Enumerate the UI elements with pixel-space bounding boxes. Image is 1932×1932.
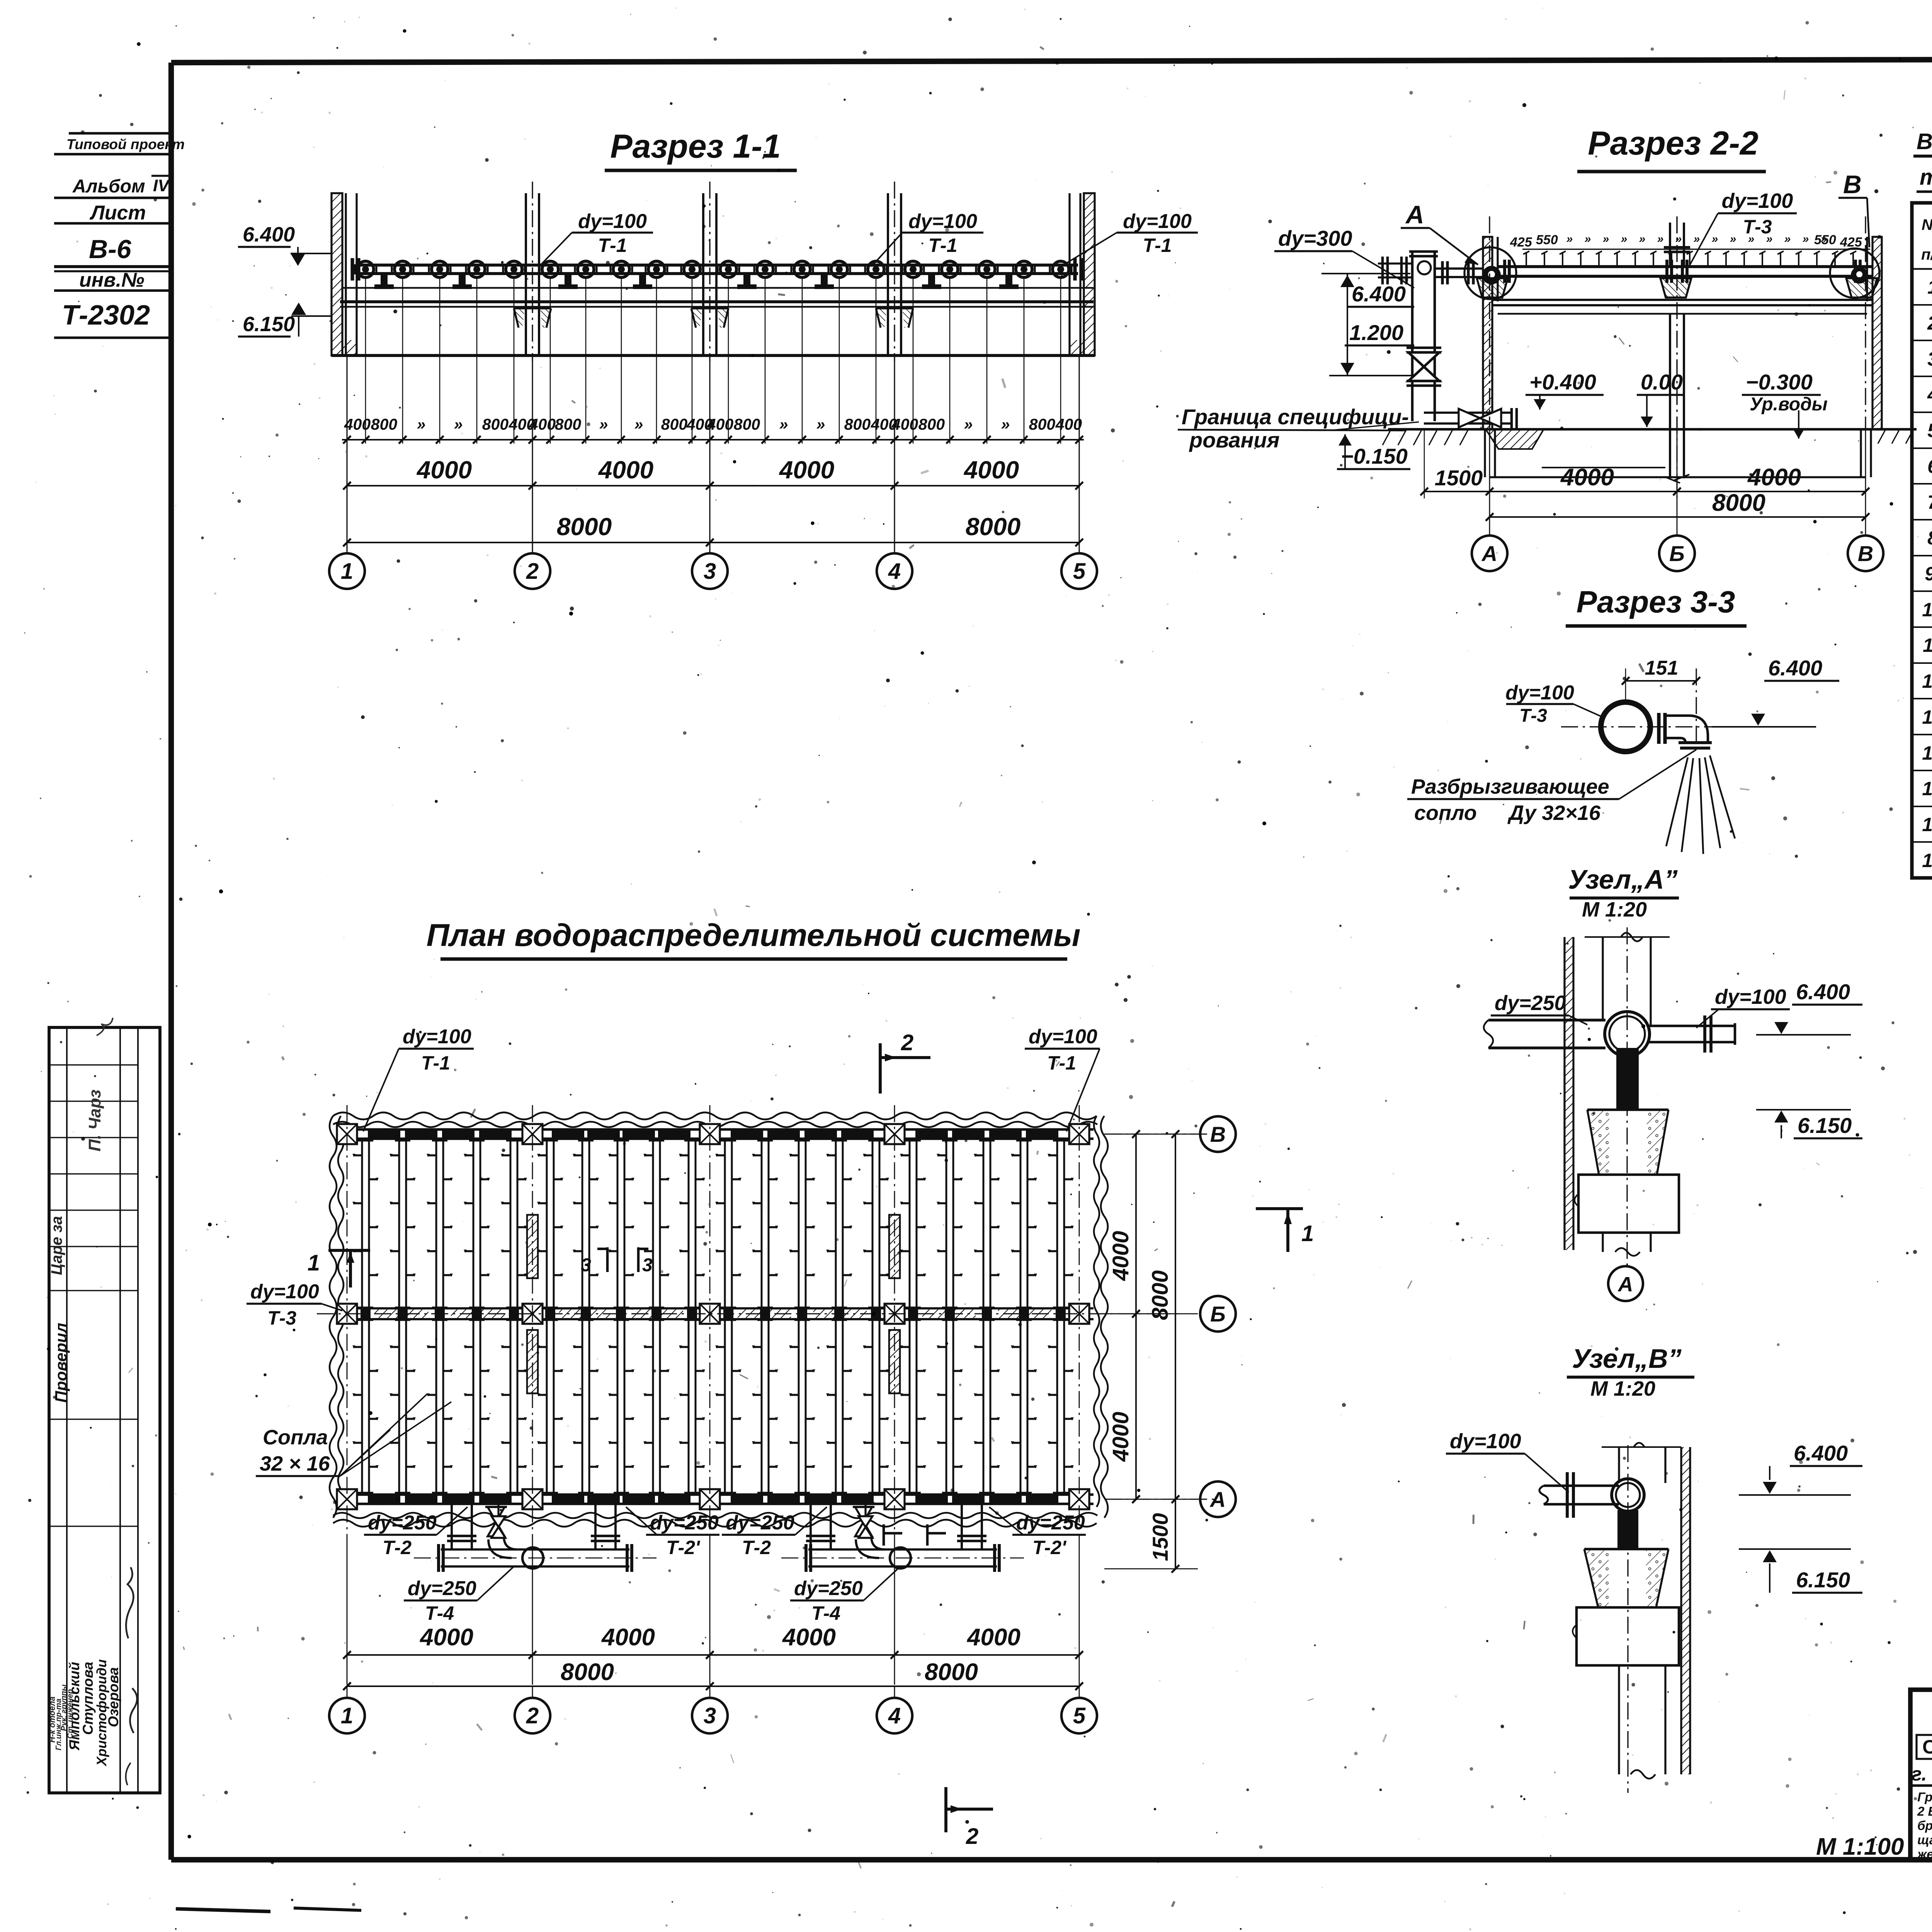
uzel B centerline: [1627, 1445, 1628, 1793]
svg-text:Лист: Лист: [89, 202, 146, 224]
svg-text:»: »: [454, 415, 463, 433]
svg-text:»: »: [1639, 233, 1646, 245]
dimension line 8000 row: [347, 542, 1079, 543]
svg-text:800: 800: [555, 415, 582, 433]
svg-text:»: »: [1675, 233, 1682, 245]
svg-text:dy=100: dy=100: [1715, 985, 1786, 1009]
svg-text:»: »: [1001, 415, 1010, 433]
svg-text:»: »: [779, 415, 788, 433]
svg-text:dy=250: dy=250: [368, 1512, 437, 1534]
svg-text:2 ВГ 50 пленочные, капельные и: 2 ВГ 50 пленочные, капельные и: [1917, 1804, 1932, 1818]
rotated signatures squiggles: [126, 1567, 133, 1638]
lateral flange circles on pipe: [357, 261, 374, 277]
svg-text:6.400: 6.400: [1796, 980, 1850, 1004]
svg-text:8000: 8000: [1148, 1270, 1173, 1320]
svg-text:»: »: [1621, 233, 1628, 245]
svg-text:Типовой проект: Типовой проект: [66, 136, 185, 152]
callout circle node A: [1464, 247, 1516, 299]
title block outer: [1910, 1690, 1932, 1860]
svg-text:800: 800: [661, 415, 688, 433]
beam lines section 2-2: [1492, 299, 1872, 301]
stamp field Типовой проект: [69, 132, 171, 135]
plan right extension lines: [1104, 1134, 1198, 1135]
svg-text:dy=250: dy=250: [794, 1577, 863, 1600]
svg-text:железобетонных элементов: железобетонных элементов: [1917, 1847, 1932, 1861]
svg-text:Проверил: Проверил: [52, 1323, 70, 1403]
svg-text:Сопла: Сопла: [263, 1426, 328, 1449]
svg-text:Б: Б: [1210, 1302, 1226, 1326]
svg-text:11: 11: [1923, 634, 1932, 656]
svg-text:»: »: [599, 415, 608, 433]
small dim row 425 550: [1522, 248, 1870, 250]
svg-text:Царе за: Царе за: [48, 1216, 65, 1275]
uzel A column below beam: [1602, 1233, 1604, 1252]
svg-text:400: 400: [529, 415, 556, 433]
uzel B black riser below: [1617, 1510, 1638, 1549]
svg-text:7: 7: [1927, 492, 1932, 513]
uzel A axis circle A: [1626, 1264, 1628, 1267]
svg-text:4000: 4000: [966, 1624, 1020, 1651]
svg-text:4000: 4000: [779, 456, 834, 484]
section 1-1 interior columns: [525, 193, 527, 355]
manifold horizontal pipe dy=250: [808, 1548, 997, 1551]
svg-text:32 × 16: 32 × 16: [260, 1452, 330, 1475]
section 2-2 right wall: [1872, 237, 1882, 429]
svg-text:8: 8: [1927, 527, 1932, 549]
tee dy=200 branch: [1424, 412, 1512, 414]
svg-text:16: 16: [1922, 814, 1932, 835]
section cut flag 1 right: [1256, 1207, 1303, 1210]
svg-text:dy=100: dy=100: [1722, 189, 1793, 213]
ground line: [1388, 428, 1917, 431]
uzel A pipe dy=250: [1488, 1019, 1605, 1021]
nozzle ball circle: [1601, 702, 1650, 752]
svg-text:2: 2: [526, 1703, 539, 1728]
section 1-1 right wall: [1084, 193, 1095, 355]
column capital hatched: [691, 308, 702, 328]
svg-text:400: 400: [707, 415, 734, 433]
svg-text:Альбом: Альбом: [72, 176, 145, 197]
plan row A header pipe: [344, 1493, 1094, 1496]
svg-text:3: 3: [581, 1255, 591, 1276]
stub left of standpipe: [1378, 262, 1412, 264]
svg-text:14: 14: [1922, 742, 1932, 764]
svg-text:6.400: 6.400: [243, 223, 295, 246]
svg-text:М 1:20: М 1:20: [1590, 1377, 1655, 1400]
svg-text:А: А: [1405, 200, 1424, 229]
svg-text:»: »: [964, 415, 973, 433]
svg-text:12: 12: [1922, 670, 1932, 692]
svg-text:п/п: п/п: [1921, 246, 1932, 263]
plan row V header pipe: [344, 1128, 1094, 1131]
stub to wall from standpipe: [1435, 267, 1483, 270]
uzel A flange on dy=100: [1703, 1015, 1706, 1053]
section 1-1 left wall: [332, 193, 342, 355]
svg-text:»: »: [1585, 233, 1591, 245]
bottom scan line: [176, 1909, 270, 1912]
svg-text:»: »: [1730, 233, 1736, 245]
svg-text:Разрез 3-3: Разрез 3-3: [1577, 585, 1735, 619]
column B below: [1669, 314, 1671, 478]
svg-text:dy=100: dy=100: [1029, 1026, 1097, 1048]
valve on dy=200 branch: [1459, 409, 1480, 427]
svg-text:»: »: [1603, 233, 1609, 245]
plan hatched segments row B: [375, 1310, 429, 1318]
level -0.150: [1338, 434, 1352, 446]
svg-text:425: 425: [1510, 235, 1532, 250]
valve on standpipe: [1408, 352, 1439, 367]
svg-text:4000: 4000: [598, 456, 653, 484]
svg-text:dy=250: dy=250: [1016, 1512, 1085, 1534]
svg-text:4000: 4000: [963, 456, 1019, 484]
section 2-2 left wall: [1483, 237, 1492, 429]
svg-text:Ст. инженер: Ст. инженер: [66, 1689, 75, 1739]
svg-text:4000: 4000: [1108, 1412, 1133, 1462]
svg-text:В: В: [1858, 541, 1873, 566]
column capital hatched: [514, 308, 525, 328]
manifold central flange circle: [890, 1548, 911, 1568]
standpipe dy=300: [1411, 251, 1414, 421]
callout circle node B: [1830, 248, 1879, 298]
svg-text:400: 400: [891, 415, 918, 433]
uzel A wall hatched: [1563, 937, 1565, 1250]
table outer border: [1912, 203, 1932, 878]
plan bottom dimensions 4000: [347, 1654, 1079, 1656]
svg-text:dy=250: dy=250: [1495, 992, 1566, 1015]
svg-text:dy=100: dy=100: [1505, 682, 1574, 704]
uzel A support: [1587, 1109, 1668, 1111]
svg-text:dy=250: dy=250: [408, 1577, 476, 1600]
svg-text:4000: 4000: [782, 1624, 836, 1651]
svg-text:+0.400: +0.400: [1529, 370, 1596, 394]
riser projection lines: [365, 277, 366, 444]
dim 8000 section 2-2: [1490, 516, 1866, 518]
svg-text:IV: IV: [153, 176, 170, 195]
svg-text:А: А: [1209, 1487, 1226, 1512]
manifold horizontal pipe dy=250: [441, 1548, 629, 1551]
svg-text:6.150: 6.150: [1798, 1113, 1852, 1138]
drawing frame border: [171, 58, 1932, 63]
manifold riser left: [451, 1504, 453, 1549]
table row lines: [1912, 304, 1932, 306]
svg-text:Т-2302: Т-2302: [62, 300, 150, 331]
plan axis centerlines: [347, 1105, 348, 1535]
valve stub below row A bay3: [864, 1504, 866, 1516]
svg-text:1: 1: [308, 1250, 320, 1276]
svg-text:3: 3: [642, 1255, 653, 1276]
svg-text:6.400: 6.400: [1768, 656, 1822, 680]
svg-text:В: В: [1210, 1122, 1226, 1146]
plan vertical hatched risers at axes 2 and 4: [527, 1215, 538, 1278]
svg-text:»: »: [1657, 233, 1664, 245]
manifold central flange circle: [522, 1548, 543, 1568]
elbow fitting: [1657, 713, 1660, 744]
svg-text:»: »: [1821, 233, 1827, 245]
svg-text:dy=100: dy=100: [578, 210, 647, 233]
header pipe section 2-2: [1498, 265, 1872, 268]
uzel B riser circle: [1612, 1479, 1644, 1511]
manifold riser left: [810, 1504, 812, 1549]
svg-text:Ступлова: Ступлова: [80, 1662, 96, 1735]
svg-text:»: »: [816, 415, 825, 433]
svg-text:2: 2: [1927, 312, 1932, 334]
uzel B pipe dy=100 left: [1544, 1485, 1619, 1487]
svg-text:Т-1: Т-1: [929, 235, 957, 256]
svg-text:9.: 9.: [1925, 563, 1932, 585]
spray lines: [1666, 757, 1688, 846]
plan laterals with nozzle ticks: [361, 1139, 363, 1495]
svg-text:−0.300: −0.300: [1746, 370, 1813, 394]
uzel A pipe dy=100 right: [1648, 1025, 1735, 1027]
svg-text:рования: рования: [1189, 428, 1280, 452]
uzel A riser circle: [1605, 1012, 1650, 1056]
svg-text:щадью 64 м² с каркасом из: щадью 64 м² с каркасом из: [1917, 1833, 1932, 1847]
svg-text:2: 2: [901, 1030, 913, 1055]
svg-text:А: А: [1617, 1273, 1633, 1296]
svg-text:Градирни с вентиляторами: Градирни с вентиляторами: [1917, 1790, 1932, 1804]
svg-text:10: 10: [1922, 599, 1932, 621]
svg-text:Т-1: Т-1: [421, 1052, 450, 1074]
uzel A black riser below: [1616, 1048, 1639, 1110]
svg-text:Т-2': Т-2': [1032, 1537, 1067, 1558]
svg-text:Узел„В”: Узел„В”: [1572, 1344, 1681, 1374]
svg-text:Б: Б: [1669, 541, 1685, 566]
svg-text:4000: 4000: [601, 1624, 655, 1651]
rotated signature table grid: [49, 1027, 160, 1793]
uzel A level 6.150: [1774, 1111, 1788, 1122]
section cut 2 marks at manifold: [883, 1524, 885, 1546]
extension lines section 2-2: [1489, 429, 1490, 535]
svg-text:15: 15: [1922, 778, 1932, 799]
svg-text:Ду 32×16: Ду 32×16: [1507, 801, 1601, 825]
svg-text:8000: 8000: [561, 1659, 614, 1685]
svg-text:2: 2: [966, 1824, 978, 1849]
svg-text:550: 550: [1536, 233, 1558, 247]
svg-text:Т-3: Т-3: [267, 1307, 296, 1329]
svg-text:8000: 8000: [1712, 490, 1765, 516]
svg-text:Т-3: Т-3: [1743, 216, 1772, 238]
svg-text:dy=250: dy=250: [650, 1512, 719, 1534]
svg-text:1: 1: [341, 1703, 353, 1728]
svg-text:1.200: 1.200: [1349, 320, 1403, 345]
svg-text:г. Москва: г. Москва: [1912, 1763, 1932, 1785]
svg-text:NN: NN: [1922, 216, 1932, 233]
uzel A centerline: [1626, 927, 1628, 1264]
svg-text:3: 3: [704, 1703, 716, 1728]
svg-text:П. Чарз: П. Чарз: [85, 1090, 104, 1151]
svg-text:Озерова: Озерова: [105, 1667, 121, 1727]
svg-text:М 1:20: М 1:20: [1582, 898, 1647, 921]
svg-text:1500: 1500: [1148, 1513, 1172, 1561]
uzel B column lines: [1618, 1447, 1620, 1483]
svg-text:5: 5: [1073, 559, 1086, 584]
svg-text:Т-3: Т-3: [1519, 706, 1547, 726]
svg-text:400: 400: [1055, 415, 1082, 433]
svg-text:dy=100: dy=100: [403, 1026, 471, 1048]
nozzle stubs up: [1526, 252, 1527, 267]
svg-text:Т-4: Т-4: [811, 1602, 840, 1624]
svg-text:2: 2: [526, 559, 539, 584]
svg-text:dy=300: dy=300: [1278, 226, 1352, 250]
uzel B wall hatched right: [1680, 1447, 1682, 1774]
svg-text:3: 3: [704, 559, 716, 584]
svg-text:5: 5: [1927, 420, 1932, 441]
plan black pipe segments row V and A: [368, 1131, 400, 1138]
centerlines nozzle: [1561, 726, 1764, 727]
plan row B header pipe hatched: [344, 1307, 1094, 1310]
svg-text:Т-1: Т-1: [598, 235, 627, 256]
manifold riser right: [594, 1504, 597, 1549]
svg-text:Т-2: Т-2: [383, 1537, 412, 1558]
svg-text:Разрез 2-2: Разрез 2-2: [1588, 125, 1759, 162]
plan axis circles right: [1200, 1116, 1236, 1152]
svg-text:800: 800: [482, 415, 509, 433]
plan right dimension lines: [1135, 1134, 1137, 1499]
pipe supports black: [381, 274, 388, 284]
svg-text:8000: 8000: [925, 1659, 978, 1685]
svg-text:800: 800: [1029, 415, 1056, 433]
svg-text:1500: 1500: [1435, 466, 1483, 490]
svg-text:»: »: [634, 415, 643, 433]
svg-text:4000: 4000: [1108, 1231, 1133, 1281]
svg-text:Т-4: Т-4: [425, 1602, 454, 1624]
manifold valve and elbow: [488, 1507, 505, 1522]
uzel B flange: [1566, 1472, 1569, 1518]
soil hatch under tee: [1486, 429, 1544, 449]
svg-text:»: »: [1712, 233, 1718, 245]
riser at B axis: [1669, 223, 1671, 267]
level 6.400 section 2-2: [1321, 273, 1410, 274]
svg-text:СОЮЗВОДОКАНАЛПРОЕКТ: СОЮЗВОДОКАНАЛПРОЕКТ: [1922, 1736, 1932, 1758]
svg-text:»: »: [1694, 233, 1700, 245]
svg-text:4: 4: [888, 1703, 901, 1728]
svg-text:6: 6: [1927, 456, 1932, 477]
svg-text:брызгальные с секциями пло-: брызгальные с секциями пло-: [1917, 1818, 1932, 1833]
dark tee at node B: [1851, 267, 1868, 284]
tank walls and floor: [1484, 429, 1486, 477]
column capital hatched: [876, 308, 887, 328]
svg-text:»: »: [1803, 233, 1809, 245]
table header row line: [1912, 268, 1932, 270]
svg-text:800: 800: [918, 415, 945, 433]
svg-text:1: 1: [341, 559, 353, 584]
dimension line 4000 row: [347, 485, 1079, 486]
svg-text:»: »: [417, 415, 426, 433]
svg-text:800: 800: [734, 415, 760, 433]
svg-text:6.150: 6.150: [1796, 1568, 1850, 1592]
plan bottom dimensions 8000: [347, 1685, 1079, 1687]
svg-text:сопло: сопло: [1414, 801, 1477, 825]
svg-text:4: 4: [1927, 384, 1932, 405]
svg-text:425: 425: [1840, 235, 1862, 250]
manifold valve and elbow: [855, 1507, 872, 1522]
section cut marks 3-3 in plan: [606, 1247, 609, 1272]
svg-text:3: 3: [1927, 348, 1932, 370]
svg-text:4: 4: [888, 559, 901, 584]
beam under pipe: [342, 287, 1094, 289]
svg-text:dy=250: dy=250: [726, 1512, 794, 1534]
svg-text:Узел„А”: Узел„А”: [1568, 864, 1677, 895]
svg-text:dy=100: dy=100: [250, 1281, 319, 1303]
svg-text:6.150: 6.150: [243, 313, 295, 336]
svg-text:Выборка материалов и обарудов: Выборка материалов и обарудования на вод…: [1917, 129, 1932, 154]
svg-text:4000: 4000: [416, 456, 472, 484]
dimension line 400-800 row: [342, 439, 1084, 440]
svg-text:Разбрызгивающее: Разбрызгивающее: [1411, 775, 1609, 798]
svg-text:8000: 8000: [966, 513, 1020, 541]
svg-text:Т-1: Т-1: [1143, 235, 1172, 256]
svg-text:800: 800: [371, 415, 398, 433]
svg-text:В: В: [1843, 170, 1862, 199]
svg-text:Т-2: Т-2: [742, 1537, 771, 1558]
svg-text:5: 5: [1073, 1703, 1086, 1728]
svg-text:151: 151: [1645, 657, 1679, 679]
uzel A column lines: [1602, 937, 1604, 1020]
valve stub below row A bay1: [497, 1504, 499, 1516]
uzel B level 6.150: [1763, 1550, 1777, 1562]
plan axis column squares: [337, 1124, 357, 1144]
svg-text:В-6: В-6: [89, 235, 132, 264]
svg-text:dy=100: dy=100: [1123, 210, 1192, 233]
svg-text:»: »: [1566, 233, 1573, 245]
uzel B column below: [1618, 1665, 1620, 1774]
plan axis circles bottom 1-5: [347, 1686, 348, 1698]
svg-text:4000: 4000: [1747, 464, 1801, 491]
dims 1500 4000 4000 section 2-2: [1424, 491, 1866, 492]
svg-text:dy=100: dy=100: [908, 210, 977, 233]
svg-text:План водораспределительной сис: План водораспределительной системы: [427, 918, 1081, 953]
svg-text:1: 1: [1927, 276, 1932, 298]
svg-text:инв.№: инв.№: [79, 269, 145, 291]
axis circles 1-5 section 1-1: [329, 553, 365, 589]
uzel A beam: [1578, 1175, 1679, 1233]
axis circles A B V section 2-2: [1472, 536, 1507, 571]
plan wavy border: [333, 1112, 1097, 1119]
svg-text:М 1:100: М 1:100: [1816, 1833, 1904, 1860]
svg-text:4000: 4000: [1560, 464, 1614, 491]
svg-text:17: 17: [1922, 850, 1932, 871]
svg-text:А: А: [1481, 541, 1497, 566]
svg-text:Т-2': Т-2': [666, 1537, 701, 1558]
svg-text:8000: 8000: [557, 513, 612, 541]
svg-text:1: 1: [1301, 1221, 1314, 1246]
svg-text:dy=100: dy=100: [1450, 1430, 1521, 1453]
uzel B support: [1584, 1548, 1668, 1551]
svg-text:4000: 4000: [419, 1624, 473, 1651]
header pipe dy=100: [355, 264, 1078, 267]
dark tee at node A: [1482, 266, 1501, 284]
section bottom line: [332, 354, 1095, 357]
section cut flag 2 bottom: [944, 1787, 947, 1832]
flange pairs on pipe: [1503, 260, 1506, 283]
svg-text:400: 400: [344, 415, 371, 433]
support trapezoids section 2-2: [1477, 278, 1508, 298]
svg-text:−0.150: −0.150: [1341, 444, 1408, 468]
svg-text:тельную систему 2: тельную систему 2: [1920, 165, 1932, 190]
uzel B beam: [1577, 1607, 1679, 1665]
svg-text:Ур.воды: Ур.воды: [1750, 394, 1828, 415]
svg-text:Граница специфици-: Граница специфици-: [1182, 405, 1409, 429]
svg-text:13: 13: [1922, 706, 1932, 728]
svg-text:»: »: [1784, 233, 1791, 245]
svg-text:800: 800: [844, 415, 871, 433]
pipe end blind flanges: [350, 258, 354, 281]
svg-text:Т-1: Т-1: [1047, 1052, 1076, 1074]
manifold riser right: [961, 1504, 963, 1549]
dim 151: [1626, 680, 1696, 682]
